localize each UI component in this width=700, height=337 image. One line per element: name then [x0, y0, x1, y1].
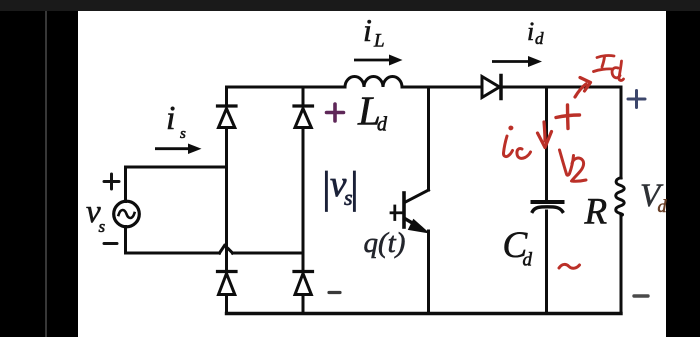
svg-text:s: s [180, 126, 186, 142]
svg-text:i: i [363, 12, 372, 48]
svg-text:d: d [658, 196, 668, 216]
wire: top rail right segment (diode to output) [501, 86, 621, 89]
wire: capacitor drop from top rail [545, 87, 548, 200]
red annotation Vd (capacitor voltage) [560, 150, 587, 181]
svg-text:q(t): q(t) [364, 227, 406, 259]
label iL [363, 12, 385, 52]
svg-text:L: L [373, 31, 385, 52]
label R [584, 192, 608, 233]
right black sidebar [666, 0, 700, 337]
diode D3 (lower-left bridge) [218, 272, 237, 295]
wire: right bridge leg middle [302, 128, 305, 272]
wire: capacitor to bottom rail [545, 211, 548, 314]
wire: transistor emitter to bottom rail [427, 231, 430, 314]
wire: right bridge leg upper [302, 87, 305, 106]
transistor Q (IGBT q(t)) [391, 190, 429, 233]
arrow is (source current) [155, 144, 202, 155]
svg-text:i: i [166, 100, 175, 137]
inductor Ld [345, 77, 402, 88]
wire: top rail middle segment (inductor to diode) [402, 86, 481, 89]
resistor R [616, 178, 624, 216]
wire: output right branch upper [620, 87, 623, 178]
arrow id (diode current) [492, 56, 542, 67]
label + (source) [104, 174, 119, 189]
diode D2 (upper-right bridge) [294, 106, 313, 128]
capacitor Cd [533, 202, 563, 212]
red annotation dash (near Cd bottom) [559, 264, 580, 268]
red annotation ic (capacitor current) [503, 127, 530, 158]
wire: bottom rail [227, 312, 622, 315]
label - (output) [634, 294, 648, 297]
label - (source) [104, 242, 117, 245]
wire: left bridge leg middle [225, 128, 228, 272]
label vs [86, 194, 106, 236]
label - (bridge output) [329, 291, 340, 294]
svg-text:d: d [523, 250, 533, 271]
wire: left bridge leg lower [225, 295, 228, 314]
wire: transistor collector drop from top rail [427, 87, 430, 190]
label Vd (output voltage) [640, 178, 668, 216]
wire: source top lead [126, 167, 227, 202]
svg-text:d: d [377, 114, 388, 136]
svg-text:|: | [350, 163, 359, 212]
wire: output right branch lower [620, 215, 623, 314]
label is [166, 100, 186, 142]
label + (bridge output polarity, purple) [327, 104, 344, 121]
diode D1 (upper-left bridge) [218, 106, 237, 128]
red annotation arrow down (into capacitor) [538, 122, 552, 148]
wire: top rail left segment (bridge to inductor) [227, 86, 346, 89]
diode D4 (lower-right bridge) [294, 272, 313, 295]
diode D5 (series boost diode) [482, 76, 501, 99]
wire: right bridge leg lower [302, 295, 305, 314]
svg-text:d: d [535, 29, 544, 48]
label id [527, 17, 544, 48]
wire: left bridge leg upper [225, 87, 228, 106]
red annotation arrow on wire (current direction) [575, 78, 591, 98]
label q(t) [364, 227, 406, 259]
svg-text:R: R [584, 192, 608, 233]
svg-text:i: i [527, 17, 534, 46]
label Cd [503, 225, 533, 271]
AC source vs circle [114, 201, 140, 227]
label |vs| [322, 163, 359, 212]
top black bar [0, 0, 700, 11]
red annotation Id (handwritten, top right) [594, 56, 624, 81]
left black sidebar [0, 0, 78, 337]
arrow iL (inductor current) [354, 55, 403, 66]
red annotation + (capacitor polarity) [556, 105, 580, 129]
label + (output, blue) [628, 91, 645, 108]
label Ld [357, 88, 388, 136]
wire: source bottom lead with hop over left leg [126, 227, 304, 254]
svg-text:s: s [99, 217, 106, 236]
